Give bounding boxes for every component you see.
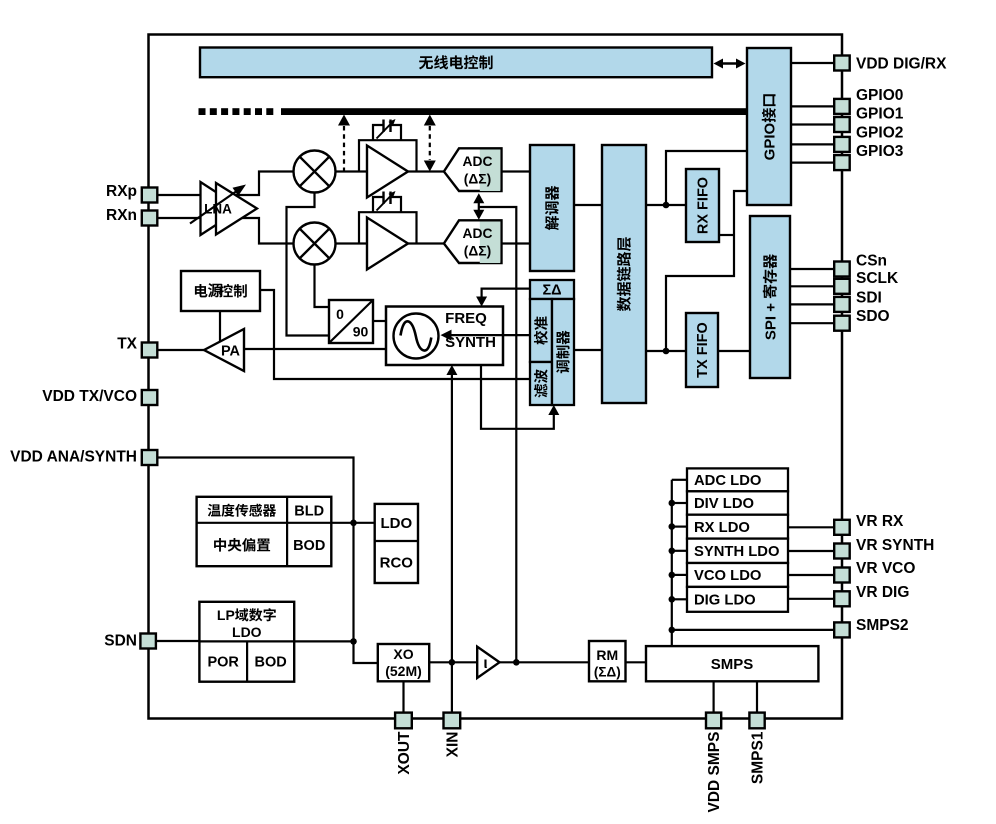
svg-text:SMPS1: SMPS1 <box>750 731 767 784</box>
svg-text:LDO: LDO <box>232 624 262 640</box>
SMPS box <box>646 646 818 681</box>
clock buffer <box>477 647 499 678</box>
wire datalink to RX FIFO <box>646 204 686 206</box>
pin SDO <box>790 322 834 324</box>
pin XOUT <box>395 713 412 729</box>
svg-text:SMPS2: SMPS2 <box>856 617 909 634</box>
wire VDD ANA/SYNTH rail <box>157 458 378 664</box>
svg-text:GPIO2: GPIO2 <box>856 125 903 142</box>
AGC dashed arrow right <box>429 126 431 160</box>
svg-text:SDN: SDN <box>104 633 137 650</box>
wire bias box to LDO <box>331 522 374 524</box>
mixer I <box>294 151 336 193</box>
wire pwrctl to PA <box>219 311 221 343</box>
svg-text:ι: ι <box>483 655 487 672</box>
svg-text:SYNTH: SYNTH <box>445 334 496 351</box>
svg-text:RCO: RCO <box>380 555 414 572</box>
pin RXn <box>142 211 158 226</box>
wire TX node up to GPIO <box>666 191 747 351</box>
clock wire from XO buffer up to ADCs <box>479 207 517 662</box>
svg-text:VR DIG: VR DIG <box>856 584 909 601</box>
svg-text:SPI +: SPI + <box>762 303 779 340</box>
svg-text:BOD: BOD <box>293 538 325 554</box>
svg-text:ADC: ADC <box>463 154 493 169</box>
wire SMPS to SMPS1 pin <box>756 681 758 713</box>
calibration to synth wire with arrow <box>444 334 530 336</box>
pin SMPS1 <box>749 713 764 729</box>
svg-text:RXn: RXn <box>106 207 137 224</box>
svg-text:BLD: BLD <box>294 504 324 520</box>
wire TX FIFO to SPI <box>718 350 750 352</box>
AGC dashed arrow left <box>343 126 345 172</box>
svg-text:VCO LDO: VCO LDO <box>694 568 761 584</box>
svg-text:ΣΔ: ΣΔ <box>542 283 561 299</box>
sigma-delta box <box>530 280 574 299</box>
svg-text:XO: XO <box>393 646 413 662</box>
wire XIN riser to synth <box>451 370 453 713</box>
LDO / RCO box <box>375 504 418 583</box>
svg-text:DIG LDO: DIG LDO <box>694 593 756 609</box>
svg-text:(ΣΔ): (ΣΔ) <box>594 665 621 680</box>
svg-text:RM: RM <box>596 647 618 663</box>
wire mixerI LO <box>287 193 330 336</box>
ADC Q (delta-sigma) <box>444 220 502 263</box>
double arrow between ADCs <box>478 198 480 215</box>
0/90 phase splitter <box>329 300 373 343</box>
wire rail to SMPS2 pin <box>672 629 834 631</box>
svg-text:SMPS: SMPS <box>711 656 754 673</box>
demodulator 解调器 <box>530 145 574 271</box>
sigma-delta to freq synth wire <box>482 289 530 302</box>
control bus (dotted + thick bar) <box>199 108 206 115</box>
pin RXp <box>142 188 158 203</box>
PGA Q (variable gain amp with feedback cap) <box>359 212 417 243</box>
svg-text:LNA: LNA <box>204 202 232 217</box>
svg-text:LDO: LDO <box>380 515 412 532</box>
svg-text:90: 90 <box>353 324 369 340</box>
svg-text:VDD ANA/SYNTH: VDD ANA/SYNTH <box>10 449 137 466</box>
modulator 调制器 <box>552 299 574 405</box>
power control box 电源控制 <box>181 271 260 311</box>
pin GPIO3 <box>791 162 834 164</box>
wire mixerQ to PGA Q <box>336 242 368 244</box>
data link layer 数据链路层 <box>602 145 646 403</box>
svg-text:RX FIFO: RX FIFO <box>696 177 712 234</box>
wire DIG LDO to VR DIG <box>788 598 834 600</box>
LDO stack <box>687 468 788 491</box>
svg-text:FREQ: FREQ <box>445 310 487 327</box>
wire RX LDO to VR RX <box>788 526 834 528</box>
wire RXn to mixer Q <box>157 218 294 244</box>
PGA I (variable gain amp with feedback cap) <box>359 140 417 171</box>
LNA <box>201 182 242 235</box>
wire datalink to TX FIFO <box>646 350 686 352</box>
svg-text:XIN: XIN <box>444 732 461 758</box>
RX FIFO <box>686 169 719 242</box>
svg-text:POR: POR <box>207 655 239 671</box>
chip outer border <box>149 35 843 719</box>
pin VR DIG <box>834 591 850 606</box>
svg-text:SCLK: SCLK <box>856 270 899 287</box>
bottom pin labels (rotated) <box>396 731 413 775</box>
pin VDD TX/VCO <box>142 390 158 405</box>
wire XO to XOUT pin <box>402 681 404 712</box>
radio control block 无线电控制 <box>200 48 712 78</box>
pin SDN <box>140 634 156 649</box>
wire VCO LDO to VR VCO <box>788 574 834 576</box>
svg-text:BOD: BOD <box>254 655 286 671</box>
wire PA to synth <box>244 348 386 350</box>
SPI + registers block <box>750 216 790 378</box>
pin SDI <box>790 303 834 305</box>
pin GPIO1 <box>791 123 834 125</box>
pin VR RX <box>834 520 850 535</box>
wire XO to buffer <box>429 661 477 663</box>
RM sigma-delta box <box>589 641 626 681</box>
temp sensor / bias box <box>197 497 332 566</box>
filter 滤波 <box>530 362 552 405</box>
pin GPIO0 <box>791 105 834 107</box>
wire demod to datalink <box>574 204 602 206</box>
svg-text:GPIO1: GPIO1 <box>856 106 904 123</box>
freq synth box <box>386 307 503 366</box>
wire RM to SMPS <box>626 661 647 663</box>
svg-text:VR RX: VR RX <box>856 513 904 530</box>
wire buffer to RM <box>500 661 590 663</box>
pin VDD DIG/RX <box>791 62 834 64</box>
svg-text:VDD SMPS: VDD SMPS <box>706 732 723 813</box>
wire mixerQ LO <box>315 265 330 308</box>
pin SMPS2 <box>834 622 850 637</box>
svg-text:CSn: CSn <box>856 253 887 270</box>
pin GPIO2 <box>791 143 834 145</box>
svg-text:ADC: ADC <box>463 226 493 241</box>
svg-text:SDI: SDI <box>856 290 882 307</box>
svg-text:SYNTH LDO: SYNTH LDO <box>694 544 780 560</box>
TX FIFO <box>686 313 718 387</box>
pin VDD SMPS <box>706 713 721 729</box>
wire mixerI to PGA I <box>336 170 368 172</box>
svg-text:GPIO: GPIO <box>761 122 778 160</box>
svg-text:LP: LP <box>217 607 235 623</box>
wire synth bottom to modulator <box>481 365 554 429</box>
svg-text:VDD DIG/RX: VDD DIG/RX <box>856 56 947 73</box>
svg-text:VR VCO: VR VCO <box>856 560 915 577</box>
calibration 校准 <box>530 299 552 362</box>
ADC I (delta-sigma) <box>444 148 502 191</box>
svg-text:(ΔΣ): (ΔΣ) <box>464 244 491 259</box>
wire ADC I to demod <box>502 170 531 172</box>
arrow radio-ctrl to GPIO <box>717 62 742 64</box>
svg-text:0: 0 <box>336 306 344 322</box>
PA <box>204 329 244 371</box>
wire modulator to datalink <box>574 349 602 351</box>
pin XIN <box>444 713 461 729</box>
pin VR VCO <box>834 568 850 583</box>
wire SYNTH LDO to VR SYNTH <box>788 550 834 552</box>
svg-text:TX FIFO: TX FIFO <box>695 322 711 378</box>
svg-text:VR SYNTH: VR SYNTH <box>856 537 934 554</box>
wire RX node up to GPIO <box>666 151 747 205</box>
pin VDD ANA/SYNTH <box>142 450 158 465</box>
wire PGA Q to ADC Q <box>408 242 444 244</box>
wire pwrctl to filter <box>260 290 530 379</box>
svg-text:TX: TX <box>117 336 137 353</box>
mixer Q <box>294 223 336 265</box>
wire SDN to LP box <box>156 640 199 642</box>
svg-text:(52M): (52M) <box>385 663 422 679</box>
svg-text:VDD TX/VCO: VDD TX/VCO <box>42 388 137 405</box>
pin SCLK <box>790 285 834 287</box>
svg-text:RXp: RXp <box>106 183 137 200</box>
pin VR SYNTH <box>834 544 850 559</box>
svg-text:(ΔΣ): (ΔΣ) <box>464 172 491 187</box>
svg-text:DIV LDO: DIV LDO <box>694 496 754 512</box>
svg-text:RX LDO: RX LDO <box>694 520 750 536</box>
wire PGA I to ADC I <box>408 170 444 172</box>
svg-text:源: 源 <box>208 282 223 300</box>
pin TX <box>142 343 158 358</box>
LP digital LDO box <box>199 602 294 682</box>
svg-text:PA: PA <box>221 344 241 360</box>
wire ADC Q to demod <box>502 242 531 244</box>
wire TX pin to PA <box>157 349 204 351</box>
GPIO interface block GPIO接口 <box>747 48 791 205</box>
pin CSn <box>790 268 834 270</box>
wire RXp to mixer I <box>157 172 294 196</box>
svg-text:GPIO0: GPIO0 <box>856 87 903 104</box>
LDO feed rail <box>671 480 673 646</box>
wire RX FIFO to riser <box>719 234 734 236</box>
svg-text:ADC LDO: ADC LDO <box>694 473 761 489</box>
wire 0/90 to synth <box>373 320 386 322</box>
svg-text:GPIO3: GPIO3 <box>856 143 904 160</box>
wire SMPS to VDD SMPS pin <box>712 681 714 713</box>
wire LP box to rail <box>294 640 353 642</box>
svg-text:SDO: SDO <box>856 308 890 325</box>
XO box <box>378 644 429 681</box>
svg-text:XOUT: XOUT <box>396 731 413 775</box>
